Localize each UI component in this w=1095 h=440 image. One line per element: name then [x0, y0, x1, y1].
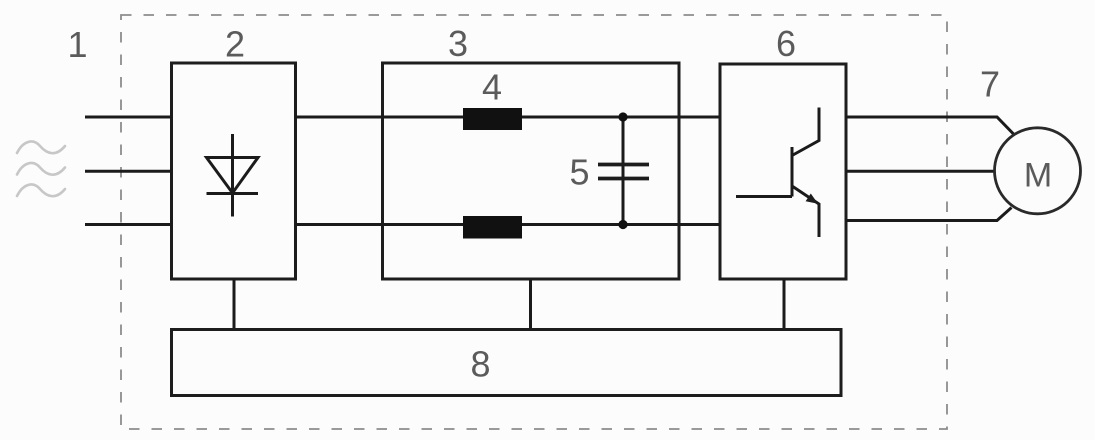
wire DC+ rail DC-link to inverter [679, 116, 720, 119]
wire DC- rail DC-link to inverter [679, 223, 720, 226]
wire motor phase W (bottom, with 45-degree bend) [846, 208, 1012, 221]
collector lead [792, 108, 819, 156]
capacitor C5 plates [598, 163, 649, 167]
svg-text:M: M [1024, 157, 1052, 195]
dashed enclosure frame (drive housing) [121, 15, 947, 429]
transistor Q1 (IGBT symbol) [736, 108, 819, 238]
control unit block 8 box [172, 330, 842, 396]
wire DC+ rail inside DC-link [383, 116, 680, 119]
wire motor phase V (middle) [846, 170, 996, 173]
svg-text:3: 3 [448, 23, 468, 64]
wire DC+ rail rectifier to DC-link [296, 116, 383, 119]
gate lead [736, 195, 792, 198]
svg-text:4: 4 [482, 67, 502, 108]
wire DC-link to control unit [529, 279, 532, 330]
capacitor C5 branch wire [622, 117, 625, 225]
diode D1 (rectifier symbol) [207, 134, 259, 217]
motor M circle [995, 128, 1081, 214]
junction dot bottom of capacitor branch [618, 220, 627, 229]
emitter lead [792, 186, 819, 237]
node L3 input wire [85, 223, 171, 226]
wire DC- rail inside DC-link [383, 223, 680, 226]
DC-link block 3 box [383, 63, 680, 279]
wire motor phase U (top, with 45-degree bend) [846, 117, 1014, 135]
inductor L4 bottom (choke, filled) [463, 216, 522, 239]
svg-text:8: 8 [470, 344, 490, 385]
base bar [791, 147, 794, 197]
wire inverter to control unit [783, 279, 786, 330]
node L2 input wire [85, 170, 171, 173]
inductor L4 top (choke, filled) [463, 108, 522, 130]
svg-text:1: 1 [67, 24, 87, 65]
inverter block 6 box [720, 64, 846, 279]
transistor Q1 emitter arrowhead [806, 194, 818, 204]
svg-text:6: 6 [776, 23, 796, 64]
svg-text:7: 7 [980, 64, 1000, 105]
svg-text:2: 2 [225, 24, 245, 65]
wire rectifier to control unit [233, 279, 236, 330]
wire DC- rail rectifier to DC-link [296, 223, 383, 226]
svg-text:5: 5 [569, 152, 589, 193]
junction dot top of capacitor branch [618, 112, 627, 121]
rectifier block 2 box [172, 63, 296, 279]
AC supply wave symbol (three tildes) [17, 142, 65, 197]
node L1 input wire [85, 116, 171, 119]
